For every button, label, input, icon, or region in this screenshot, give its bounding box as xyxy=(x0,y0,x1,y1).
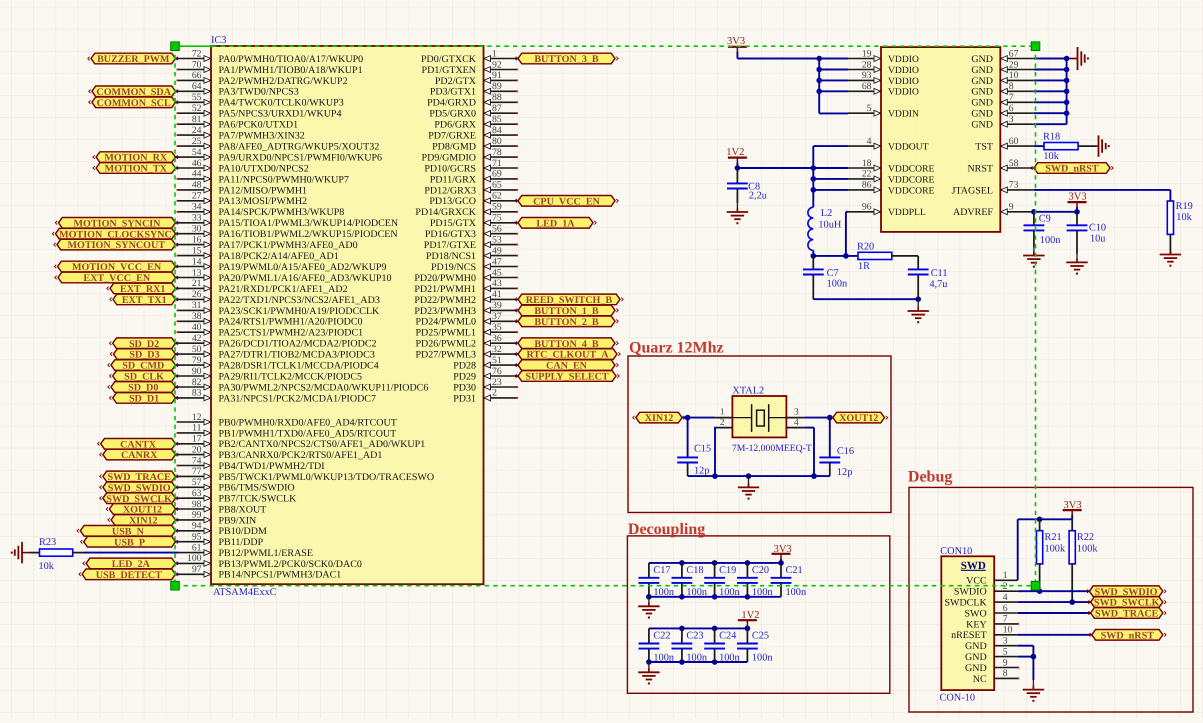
svg-text:12p: 12p xyxy=(837,467,852,478)
svg-text:VDDIO: VDDIO xyxy=(888,54,919,65)
svg-text:1: 1 xyxy=(1003,570,1008,581)
IC3 pin 56 (PD16) xyxy=(425,224,518,241)
svg-text:67: 67 xyxy=(1009,48,1019,59)
IC3 pin 37 (PD24) xyxy=(415,311,516,328)
IC3 pin 8 (GND) xyxy=(971,81,1033,98)
selection guide top xyxy=(175,45,1036,47)
IC3 pin 80 (PD8) xyxy=(432,136,518,153)
svg-text:92: 92 xyxy=(492,59,502,70)
svg-text:PB0/PWMH0/RXD0/AFE0_AD4/RTCOUT: PB0/PWMH0/RXD0/AFE0_AD4/RTCOUT xyxy=(219,417,397,428)
IC3 pin 79 (PA28) xyxy=(178,355,379,372)
svg-text:PD0/GTXCK: PD0/GTXCK xyxy=(421,54,477,65)
port SWD_SWCLK xyxy=(1087,597,1166,609)
svg-text:4: 4 xyxy=(867,136,872,147)
svg-text:GND: GND xyxy=(965,663,987,674)
wire xyxy=(819,112,848,114)
wire xyxy=(813,298,918,300)
svg-text:PD18/NCS1: PD18/NCS1 xyxy=(426,251,476,262)
IC3 part name label ATSAM4ExxC xyxy=(213,587,277,598)
svg-text:10: 10 xyxy=(1009,70,1019,81)
IC3 pin 48 (PA12) xyxy=(177,180,307,197)
svg-text:PA31/NPCS1/PCK2/MCDA1/PIODC7: PA31/NPCS1/PCK2/MCDA1/PIODC7 xyxy=(219,393,376,404)
XTAL2 pin 4 xyxy=(786,418,804,428)
svg-text:JTAGSEL: JTAGSEL xyxy=(952,185,993,196)
ground (3V3 caps) xyxy=(638,597,659,619)
svg-text:100n: 100n xyxy=(786,587,807,598)
svg-text:PA2/PWMH2/DATRG/WKUP2: PA2/PWMH2/DATRG/WKUP2 xyxy=(219,76,348,87)
svg-text:15: 15 xyxy=(192,245,202,256)
IC3 pin 32 (PD27) xyxy=(415,344,516,361)
IC3 pin 54 (PA9) xyxy=(178,147,382,164)
junction xyxy=(712,560,718,566)
IC3 pin 9 (ADVREF) xyxy=(953,202,1033,219)
svg-text:99: 99 xyxy=(192,510,202,521)
IC3 pin 67 (GND) xyxy=(971,48,1033,65)
svg-text:EXT_TX1: EXT_TX1 xyxy=(122,295,167,306)
wire xyxy=(846,212,848,256)
wire xyxy=(30,552,40,554)
IC3 pin 42 (PA26) xyxy=(178,333,376,350)
svg-text:PB9/XIN: PB9/XIN xyxy=(219,515,257,526)
CON10 pin 1 (VCC) xyxy=(966,570,1018,587)
svg-text:R22: R22 xyxy=(1077,532,1094,543)
CON10 pin 4 (SWDCLK) xyxy=(944,592,1017,609)
junction xyxy=(816,67,822,73)
IC3 pin 29 (GND) xyxy=(971,59,1033,76)
svg-text:SD_D3: SD_D3 xyxy=(129,350,159,361)
ground (C10) xyxy=(1066,254,1087,275)
svg-text:PD31: PD31 xyxy=(453,393,476,404)
svg-text:VDDIO: VDDIO xyxy=(888,76,919,87)
port LED_1A xyxy=(515,218,596,230)
crystal symbol xyxy=(732,404,786,432)
junction xyxy=(778,560,784,566)
svg-text:PA3/TWD0/NPCS3: PA3/TWD0/NPCS3 xyxy=(219,87,299,98)
wire xyxy=(813,145,848,147)
wire xyxy=(1067,58,1069,60)
IC3 pin 2 (PD31) xyxy=(453,388,518,405)
IC3 pin 65 (PD12) xyxy=(424,180,518,197)
wire xyxy=(1018,646,1034,680)
svg-text:PA16/TIOB1/PWML2/WKUP15/PIODCE: PA16/TIOB1/PWML2/WKUP15/PIODCEN xyxy=(219,229,398,240)
port SWD_TRACE xyxy=(100,471,179,483)
svg-text:PA26/DCD1/TIOA2/MCDA2/PIODC2: PA26/DCD1/TIOA2/MCDA2/PIODC2 xyxy=(219,339,377,350)
svg-text:VDDPLL: VDDPLL xyxy=(888,207,926,218)
junction xyxy=(1074,209,1080,215)
svg-text:2: 2 xyxy=(492,388,497,399)
junction xyxy=(712,659,718,665)
svg-text:44: 44 xyxy=(192,169,202,180)
wire xyxy=(804,428,814,477)
svg-text:91: 91 xyxy=(492,70,502,81)
svg-text:SUPPLY_SELECT: SUPPLY_SELECT xyxy=(525,372,608,383)
power 3V3 (debug) xyxy=(1063,500,1082,520)
port CANTX xyxy=(98,439,179,451)
selection guide left xyxy=(174,46,176,586)
IC3 pin 24 (PA7) xyxy=(177,125,305,142)
wire xyxy=(1034,211,1078,213)
power 3V3 (VDDIO) xyxy=(727,36,747,59)
svg-text:C16: C16 xyxy=(837,446,854,457)
ground (1V2 caps) xyxy=(638,662,659,685)
junction xyxy=(811,187,817,193)
junction xyxy=(745,626,751,632)
IC3 pin 22 (VDDCORE) xyxy=(848,169,935,186)
svg-text:4: 4 xyxy=(794,418,799,428)
svg-text:XTAL2: XTAL2 xyxy=(732,386,764,397)
ground (CON10) xyxy=(1023,680,1044,702)
IC3 pin 47 (PD19) xyxy=(431,256,518,273)
svg-text:EXT_RX1: EXT_RX1 xyxy=(120,284,165,295)
svg-text:9: 9 xyxy=(1009,202,1014,213)
IC3 pin 44 (PA11) xyxy=(177,169,349,186)
svg-text:93: 93 xyxy=(862,70,872,81)
IC3 pin 60 (TST) xyxy=(975,136,1033,153)
junction xyxy=(843,253,849,259)
port SD_D3 xyxy=(110,349,178,361)
section box Quarz xyxy=(628,356,891,513)
capacitor C15 12p xyxy=(677,418,711,477)
wire xyxy=(1018,612,1091,614)
IC3 pin 88 (PD4) xyxy=(427,92,518,109)
svg-text:LED_1A: LED_1A xyxy=(536,218,575,229)
selection guide bottom xyxy=(175,585,1036,587)
svg-text:GND: GND xyxy=(971,87,993,98)
ground (R18) xyxy=(1096,135,1110,156)
IC3 pin 41 (PD22) xyxy=(414,289,516,306)
junction xyxy=(735,165,741,171)
svg-text:PA8/AFE0_ADTRG/WKUP5/XOUT32: PA8/AFE0_ADTRG/WKUP5/XOUT32 xyxy=(219,142,380,153)
svg-text:PA12/MISO/PWMH1: PA12/MISO/PWMH1 xyxy=(219,185,308,196)
svg-text:VDDCORE: VDDCORE xyxy=(888,174,935,185)
IC3 pin 31 (PA23) xyxy=(177,300,380,317)
svg-text:C24: C24 xyxy=(719,631,736,642)
svg-text:PA20/PWML1/A16/AFE0_AD3/WKUP10: PA20/PWML1/A16/AFE0_AD3/WKUP10 xyxy=(219,273,392,284)
svg-text:20: 20 xyxy=(192,444,202,455)
svg-text:12p: 12p xyxy=(694,466,709,477)
IC3 pin 25 (PA8) xyxy=(177,136,380,153)
IC3 pin 86 (VDDCORE) xyxy=(848,180,935,197)
svg-text:11: 11 xyxy=(192,423,201,434)
capacitor C22 100n xyxy=(639,628,674,663)
resistor R23 xyxy=(39,537,73,572)
junction xyxy=(746,473,752,479)
svg-text:PD27/PWML3: PD27/PWML3 xyxy=(415,350,476,361)
IC3 pin 11 (PB1) xyxy=(177,423,397,440)
svg-text:KEY: KEY xyxy=(966,619,987,630)
IC3 pin 26 (PA22) xyxy=(178,289,380,306)
port SD_D1 xyxy=(110,393,179,405)
svg-text:C22: C22 xyxy=(653,631,670,642)
wire xyxy=(737,58,848,60)
svg-text:R18: R18 xyxy=(1043,132,1060,143)
IC3 pin 69 (PD11) xyxy=(430,169,518,186)
port MOTION_SYNCOUT xyxy=(54,239,179,251)
svg-text:81: 81 xyxy=(192,114,202,125)
svg-text:PA18/PCK2/A14/AFE0_AD1: PA18/PCK2/A14/AFE0_AD1 xyxy=(219,251,339,262)
wire xyxy=(73,552,178,554)
svg-text:41: 41 xyxy=(492,289,502,300)
svg-text:PA19/PWML0/A15/AFE0_AD2/WKUP9: PA19/PWML0/A15/AFE0_AD2/WKUP9 xyxy=(219,262,387,273)
IC3 pin 1 (PD0) xyxy=(421,48,517,65)
IC3 pin 16 (PA17) xyxy=(178,234,358,251)
capacitor C11 4,7u xyxy=(908,268,948,299)
junction xyxy=(745,594,751,600)
IC3 pin 30 (PA16) xyxy=(178,224,398,241)
port CPU_VCC_EN xyxy=(515,196,618,208)
svg-text:17: 17 xyxy=(192,434,202,445)
svg-text:PD25/PWML1: PD25/PWML1 xyxy=(415,328,476,339)
ground (XTAL) xyxy=(738,476,759,500)
svg-text:3: 3 xyxy=(794,408,799,418)
wire xyxy=(892,256,918,270)
port BUTTON_3_B xyxy=(515,53,618,65)
XTAL2 pin 1 xyxy=(714,408,732,418)
svg-text:PD14/GRXCK: PD14/GRXCK xyxy=(415,207,476,218)
svg-text:PB3/CANRX0/PCK2/RTS0/AFE1_AD1: PB3/CANRX0/PCK2/RTS0/AFE1_AD1 xyxy=(219,450,383,461)
port USB_N xyxy=(77,526,179,538)
CON10 pin 6 (SWO) xyxy=(964,603,1017,620)
CON10 pin 5 (GND) xyxy=(965,646,1018,663)
IC3 pin 89 (PD3) xyxy=(430,81,518,98)
CON10 pin 10 (nRESET) xyxy=(951,625,1018,642)
junction xyxy=(1037,517,1043,523)
svg-text:BUTTON_2_B: BUTTON_2_B xyxy=(534,317,599,328)
svg-text:IC3: IC3 xyxy=(211,35,226,46)
junction xyxy=(679,626,685,632)
wire xyxy=(649,627,748,629)
svg-text:C11: C11 xyxy=(931,268,948,279)
svg-text:SWDIO: SWDIO xyxy=(954,587,987,598)
IC3 pin 40 (PA25) xyxy=(177,322,364,339)
svg-text:90: 90 xyxy=(192,366,202,377)
svg-text:PA6/PCK0/UTXD1: PA6/PCK0/UTXD1 xyxy=(219,120,299,131)
op-amp IC3 power block body xyxy=(881,47,1000,232)
IC3 pin 71 (PD10) xyxy=(424,158,518,175)
svg-text:64: 64 xyxy=(192,81,202,92)
junction xyxy=(811,473,817,479)
IC3 pin 14 (PA19) xyxy=(178,256,386,273)
wire xyxy=(818,59,820,114)
IC3 pin 4 (VDDOUT) xyxy=(848,136,929,153)
svg-text:PA14/SPCK/PWMH3/WKUP8: PA14/SPCK/PWMH3/WKUP8 xyxy=(219,207,345,218)
svg-text:R20: R20 xyxy=(857,242,874,253)
IC3 pin 58 (NRST) xyxy=(967,158,1033,175)
svg-text:PA11/NPCS0/PWMH0/WKUP7: PA11/NPCS0/PWMH0/WKUP7 xyxy=(219,174,349,185)
section title Debug xyxy=(908,469,952,486)
wire xyxy=(737,167,848,169)
svg-text:XIN12: XIN12 xyxy=(645,413,674,424)
junction xyxy=(745,560,751,566)
svg-text:45: 45 xyxy=(492,267,502,278)
svg-text:PB8/XOUT: PB8/XOUT xyxy=(219,504,267,515)
ground (R23) xyxy=(11,542,30,563)
capacitor C23 100n xyxy=(672,628,707,663)
svg-text:74: 74 xyxy=(192,455,202,466)
svg-text:48: 48 xyxy=(192,180,202,191)
svg-text:GND: GND xyxy=(971,65,993,76)
IC3 pin 12 (PB0) xyxy=(177,412,397,429)
svg-text:PA29/RI1/TCLK2/MCCK/PIODC5: PA29/RI1/TCLK2/MCCK/PIODC5 xyxy=(219,371,363,382)
CON10 pin 2 (SWDIO) xyxy=(954,581,1018,598)
svg-text:SD_D1: SD_D1 xyxy=(129,394,159,405)
CON10 header SWD xyxy=(961,560,986,572)
svg-text:53: 53 xyxy=(492,234,502,245)
svg-text:C7: C7 xyxy=(827,268,839,279)
svg-text:61: 61 xyxy=(192,542,202,553)
wire xyxy=(819,79,848,81)
svg-text:36: 36 xyxy=(492,333,502,344)
svg-text:C19: C19 xyxy=(719,565,736,576)
junction xyxy=(679,594,685,600)
IC3 pin 18 (VDDCORE) xyxy=(848,158,935,175)
ground (GND pins) xyxy=(1069,47,1089,70)
svg-text:PB1/PWMH1/TXD0/AFE0_AD5/RTCOUT: PB1/PWMH1/TXD0/AFE0_AD5/RTCOUT xyxy=(219,428,397,439)
IC3 pin 82 (PA30) xyxy=(178,377,428,394)
svg-text:PB2/CANTX0/NPCS2/CTS0/AFE1_AD0: PB2/CANTX0/NPCS2/CTS0/AFE1_AD0/WKUP1 xyxy=(219,439,426,450)
svg-text:26: 26 xyxy=(192,289,202,300)
svg-text:C17: C17 xyxy=(653,565,670,576)
port RTC_CLKOUT_A xyxy=(515,349,620,361)
svg-text:PB14/NPCS1/PWMH3/DAC1: PB14/NPCS1/PWMH3/DAC1 xyxy=(219,570,342,581)
resistor R22 100k xyxy=(1069,519,1098,602)
CON10 pin 3 (GND) xyxy=(965,636,1018,653)
IC3 pin 76 (PD29) xyxy=(453,366,516,383)
wire xyxy=(1018,519,1072,580)
junction xyxy=(816,56,822,62)
port USB_P xyxy=(81,536,179,548)
svg-text:PA17/PCK1/PWMH3/AFE0_AD0: PA17/PCK1/PWMH3/AFE0_AD0 xyxy=(219,240,358,251)
port REED_SWITCH_B xyxy=(515,294,623,306)
svg-text:39: 39 xyxy=(492,300,502,311)
wire xyxy=(1078,145,1096,147)
svg-text:RTC_CLKOUT_A: RTC_CLKOUT_A xyxy=(526,350,609,361)
svg-text:XOUT12: XOUT12 xyxy=(839,413,878,424)
svg-text:PD22/PWMH2: PD22/PWMH2 xyxy=(414,295,476,306)
svg-text:SWD_TRACE: SWD_TRACE xyxy=(1095,609,1159,620)
svg-text:PD29: PD29 xyxy=(453,371,476,382)
svg-text:18: 18 xyxy=(862,158,872,169)
wire xyxy=(812,146,814,207)
svg-text:PA1/PWMH1/TIOB0/A18/WKUP1: PA1/PWMH1/TIOB0/A18/WKUP1 xyxy=(219,65,363,76)
IC3 pin 35 (PD25) xyxy=(415,322,517,339)
wire xyxy=(713,428,716,477)
svg-text:PD3/GTX1: PD3/GTX1 xyxy=(430,87,476,98)
svg-text:PB5/TWCK1/PWML0/WKUP13/TDO/TRA: PB5/TWCK1/PWML0/WKUP13/TDO/TRACESWO xyxy=(219,472,435,483)
svg-text:97: 97 xyxy=(192,564,202,575)
svg-text:1R: 1R xyxy=(858,261,870,272)
svg-text:USB_DETECT: USB_DETECT xyxy=(96,570,162,581)
svg-text:C9: C9 xyxy=(1039,214,1051,225)
svg-text:56: 56 xyxy=(492,224,502,235)
junction xyxy=(646,594,652,600)
wire xyxy=(813,178,848,180)
IC3 pin 77 (PB5) xyxy=(178,466,434,483)
IC3 pin 99 (PB9) xyxy=(178,510,256,527)
svg-text:65: 65 xyxy=(492,180,502,191)
port COMMON_SDA xyxy=(89,86,179,98)
svg-text:8: 8 xyxy=(1003,668,1008,679)
svg-text:ATSAM4ExxC: ATSAM4ExxC xyxy=(213,587,277,598)
IC3 pin 3 (GND) xyxy=(971,114,1033,131)
svg-text:MOTION_VCC_EN: MOTION_VCC_EN xyxy=(72,262,162,273)
junction xyxy=(1064,67,1070,73)
svg-text:49: 49 xyxy=(492,245,502,256)
svg-text:GND: GND xyxy=(971,120,993,131)
port BUZZER_PWM xyxy=(88,53,179,65)
svg-text:54: 54 xyxy=(192,147,202,158)
svg-text:77: 77 xyxy=(192,466,202,477)
IC3 pin 70 (PA1) xyxy=(177,59,363,76)
svg-text:CANRX: CANRX xyxy=(121,450,158,461)
svg-text:3: 3 xyxy=(1009,114,1014,125)
wire xyxy=(682,417,714,419)
svg-text:43: 43 xyxy=(492,278,502,289)
capacitor C9 100n xyxy=(1024,212,1061,247)
svg-text:87: 87 xyxy=(492,103,502,114)
svg-text:1: 1 xyxy=(492,48,497,59)
port MOTION_TX xyxy=(93,163,179,175)
svg-text:100n: 100n xyxy=(1040,235,1061,246)
svg-text:1V2: 1V2 xyxy=(741,610,759,621)
port SWD_TRACE xyxy=(1087,608,1166,620)
port SWD_SWDIO xyxy=(100,482,179,494)
svg-text:29: 29 xyxy=(1009,59,1019,70)
svg-text:L2: L2 xyxy=(821,208,832,219)
svg-text:MOTION_SYNCOUT: MOTION_SYNCOUT xyxy=(67,240,165,251)
svg-text:100k: 100k xyxy=(1045,543,1066,554)
svg-text:75: 75 xyxy=(492,213,502,224)
svg-text:Decoupling: Decoupling xyxy=(628,521,705,538)
svg-text:PD26/PWML2: PD26/PWML2 xyxy=(415,339,476,350)
svg-text:CON10: CON10 xyxy=(940,546,972,557)
svg-text:PD11/GRX: PD11/GRX xyxy=(430,174,477,185)
IC3 pin 94 (PB10) xyxy=(178,521,267,538)
IC3 pin 33 (PA15) xyxy=(178,213,398,230)
capacitor C21 100n xyxy=(771,563,806,598)
IC3 pin 100 (PB13) xyxy=(178,553,362,570)
svg-text:VDDIO: VDDIO xyxy=(888,65,919,76)
svg-text:PA4/TWCK0/TCLK0/WKUP3: PA4/TWCK0/TCLK0/WKUP3 xyxy=(219,98,344,109)
svg-text:C10: C10 xyxy=(1089,223,1106,234)
IC3 pin 5 (VDDIN) xyxy=(848,103,919,120)
IC3 pin 98 (PB8) xyxy=(178,499,266,516)
svg-text:51: 51 xyxy=(492,355,502,366)
svg-text:TST: TST xyxy=(975,142,993,153)
svg-text:PD12/GRX3: PD12/GRX3 xyxy=(424,185,476,196)
svg-text:42: 42 xyxy=(192,333,202,344)
junction xyxy=(1069,599,1075,605)
wire xyxy=(1018,590,1090,592)
junction xyxy=(811,176,817,182)
ground (C9) xyxy=(1023,247,1044,268)
svg-text:9: 9 xyxy=(1003,657,1008,668)
svg-text:2,2u: 2,2u xyxy=(749,190,767,201)
IC3 pin 43 (PD21) xyxy=(414,278,518,295)
svg-text:10k: 10k xyxy=(1176,212,1192,223)
svg-text:PD24/PWML0: PD24/PWML0 xyxy=(415,317,476,328)
svg-text:33: 33 xyxy=(192,213,202,224)
port XOUT12 xyxy=(106,504,179,516)
IC3 pin 17 (PB2) xyxy=(178,434,425,451)
section title Decoupling xyxy=(628,521,705,538)
IC3 pin 50 (PA27) xyxy=(178,344,375,361)
svg-text:PA28/DSR1/TCLK1/MCCDA/PIODC4: PA28/DSR1/TCLK1/MCCDA/PIODC4 xyxy=(219,361,379,372)
svg-text:PD6/GRX: PD6/GRX xyxy=(434,120,476,131)
svg-text:NRST: NRST xyxy=(967,163,993,174)
svg-text:ADVREF: ADVREF xyxy=(953,207,993,218)
svg-text:PD19/NCS: PD19/NCS xyxy=(431,262,476,273)
